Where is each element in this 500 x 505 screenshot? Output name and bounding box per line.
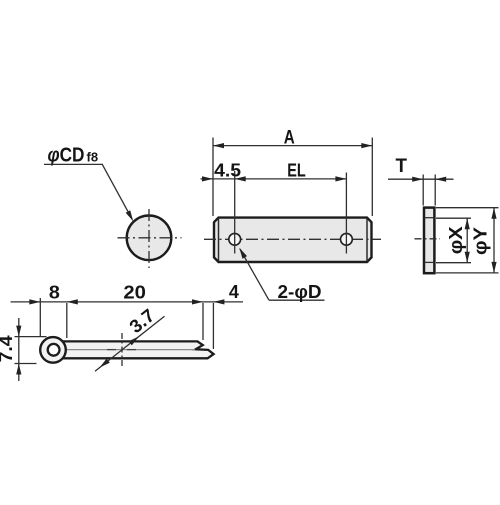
diagonal dimension line 3.7 — [95, 316, 165, 371]
leader line 2-phiD — [240, 249, 269, 300]
leader underline 2-phiD — [269, 299, 325, 301]
svg-text:EL: EL — [287, 159, 306, 180]
dimension line 7.4 — [18, 318, 20, 381]
svg-text:2-φD: 2-φD — [278, 281, 322, 302]
svg-text:φX: φX — [445, 226, 466, 255]
extension line 7.4 bottom — [15, 363, 37, 365]
extension line phiX top — [436, 217, 471, 219]
arrowhead shared 20/4 — [192, 299, 203, 304]
extension line eye left — [39, 298, 41, 336]
arrowhead 7.4 top (outside) — [16, 326, 21, 337]
extension line eye right — [66, 303, 68, 338]
leader arrowhead on circle edge — [126, 210, 134, 221]
arrowhead 4.5 left (outside) — [202, 176, 213, 181]
dimension line phiY — [493, 208, 495, 273]
arrowhead shared 8/20 — [67, 299, 78, 304]
T left arrowhead (outside) — [412, 177, 423, 182]
dimension line T — [388, 178, 454, 180]
leader arrowhead 2-phiD — [239, 248, 247, 259]
plate horizontal centerline — [204, 238, 381, 240]
plate left chamfer edge line — [218, 219, 220, 262]
extension line A right — [371, 138, 373, 217]
side view bottom chamfer tick — [425, 261, 435, 263]
dimension line 8 / 20 / 4 — [11, 301, 244, 303]
svg-text:A: A — [284, 127, 295, 148]
arrowhead 4 right (outside) — [213, 299, 224, 304]
cotter pin split line — [64, 349, 195, 351]
extension line A left — [212, 138, 214, 217]
circle horizontal centerline — [118, 237, 182, 239]
T right arrowhead (outside) — [435, 177, 446, 182]
left hole — [229, 233, 241, 245]
pin measuring-point vertical centerline — [121, 333, 123, 368]
svg-text:f8: f8 — [87, 149, 99, 164]
svg-text:T: T — [396, 156, 408, 177]
plate right chamfer edge line — [366, 219, 368, 262]
extension line phiY top — [436, 207, 499, 209]
svg-text:φCD: φCD — [48, 144, 85, 166]
extension line prong tip bottom — [212, 303, 214, 349]
svg-text:4: 4 — [229, 281, 240, 302]
phiX bottom arrowhead — [465, 252, 470, 263]
dimension A left arrowhead — [213, 143, 224, 148]
cotter pin eye outer ring — [40, 337, 66, 363]
phiY top arrowhead — [491, 208, 496, 219]
dimension line A — [213, 145, 372, 147]
leader line to circle — [103, 165, 133, 220]
circle vertical centerline — [148, 209, 150, 268]
extension line prong tip top — [202, 303, 204, 340]
svg-text:8: 8 — [49, 282, 60, 303]
arrowhead EL right — [335, 176, 346, 181]
svg-text:φY: φY — [469, 226, 490, 255]
arrowhead 8 left (outside) — [29, 299, 40, 304]
side view plate edge-on — [424, 208, 434, 274]
arrowhead 3.7 upper — [129, 337, 139, 346]
phiY bottom arrowhead — [491, 262, 496, 273]
cotter pin prongs outline — [62, 341, 214, 358]
extension line phiX bottom — [436, 262, 471, 264]
right hole — [341, 233, 353, 245]
cotter pin eye inner hole — [48, 344, 60, 356]
extension line phiY bottom — [436, 272, 499, 274]
side view top chamfer tick — [425, 217, 435, 219]
left hole vertical extension line — [234, 171, 236, 254]
svg-text:4.5: 4.5 — [214, 159, 241, 180]
svg-text:7.4: 7.4 — [0, 335, 16, 363]
plate body with chamfered corners — [214, 218, 372, 262]
pin axis dash right of centerline — [127, 349, 136, 351]
phiX top arrowhead — [465, 218, 470, 229]
dimension A right arrowhead — [361, 143, 372, 148]
svg-text:20: 20 — [123, 282, 146, 303]
side view centerline — [415, 238, 441, 240]
dimension line 4.5 / EL — [201, 178, 347, 180]
extension line 7.4 top — [15, 336, 47, 338]
T extension line left — [422, 175, 424, 206]
arrowhead 3.7 lower — [100, 359, 110, 368]
round bar circle (view of pin diameter CD) — [127, 216, 172, 261]
pin axis dash left of centerline — [107, 349, 116, 351]
leader underline for phi CD f8 — [44, 163, 103, 165]
T extension line right — [434, 175, 436, 206]
arrowhead at left hole (shared 4.5/EL) — [235, 176, 246, 181]
right hole vertical extension line — [345, 173, 347, 254]
arrowhead 7.4 bottom (outside) — [16, 364, 21, 375]
dimension line phiX — [466, 218, 468, 263]
